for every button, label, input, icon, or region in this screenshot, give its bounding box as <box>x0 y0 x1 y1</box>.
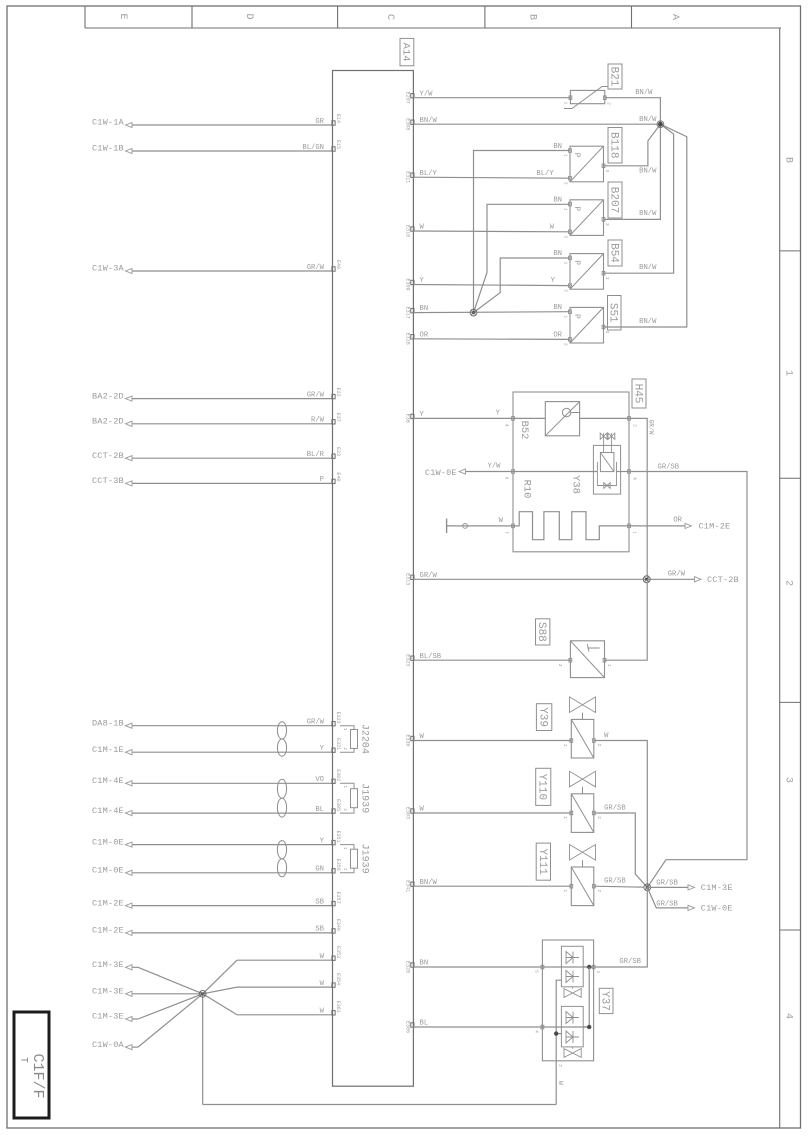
wire BN bus1 to B118 <box>474 151 571 313</box>
svg-text:GR/W: GR/W <box>307 391 325 399</box>
svg-text:E14: E14 <box>335 114 341 123</box>
svg-text:E340: E340 <box>335 919 341 931</box>
svg-text:3: 3 <box>604 277 610 280</box>
wire BN/W B54 to junction <box>604 124 674 273</box>
svg-text:Y111: Y111 <box>536 848 548 875</box>
svg-text:E356: E356 <box>335 859 341 871</box>
svg-text:E40: E40 <box>335 472 341 481</box>
svg-text:E317: E317 <box>405 307 411 319</box>
svg-text:R10: R10 <box>520 480 532 499</box>
pin E23 <box>332 454 335 458</box>
svg-text:R/W: R/W <box>311 417 325 425</box>
svg-text:3: 3 <box>604 223 610 226</box>
svg-text:GR/W: GR/W <box>307 264 325 272</box>
svg-text:B52: B52 <box>518 421 530 440</box>
svg-text:W: W <box>420 224 425 232</box>
svg-text:BL/Y: BL/Y <box>420 170 438 178</box>
svg-text:2: 2 <box>557 1064 563 1067</box>
wire OR to C1M-2E <box>629 525 685 527</box>
wire BL/Y ECU to B118 <box>413 177 570 178</box>
svg-text:CCT-2B: CCT-2B <box>92 451 124 461</box>
pin E357 <box>332 901 335 905</box>
wire C1W-0A diag <box>138 994 203 1047</box>
svg-text:1: 1 <box>563 262 569 265</box>
svg-text:BN: BN <box>553 250 562 258</box>
svg-text:SB: SB <box>315 898 324 906</box>
svg-text:W: W <box>320 980 325 988</box>
svg-text:E308: E308 <box>405 118 411 130</box>
svg-text:GR/SB: GR/SB <box>656 879 678 887</box>
svg-text:C1M-1E: C1M-1E <box>92 745 124 755</box>
svg-text:2: 2 <box>605 102 611 105</box>
svg-text:4: 4 <box>504 424 510 427</box>
svg-text:GR/SB: GR/SB <box>658 463 680 471</box>
svg-text:1: 1 <box>563 208 569 211</box>
svg-text:E306: E306 <box>405 1021 411 1033</box>
svg-text:C1M-4E: C1M-4E <box>92 806 124 816</box>
svg-text:GR/W: GR/W <box>648 420 655 435</box>
wire OR ECU to S51 <box>413 338 570 341</box>
svg-text:E302: E302 <box>335 769 341 781</box>
wire C1M-3E mid <box>132 993 203 995</box>
svg-text:Y: Y <box>320 837 325 845</box>
svg-text:C: C <box>384 14 395 20</box>
svg-text:2: 2 <box>596 889 602 892</box>
ECU pin E323 wire BL/SB <box>411 656 414 660</box>
svg-text:E357: E357 <box>335 892 341 904</box>
svg-text:J1939: J1939 <box>358 783 369 813</box>
ECU pin E309 wire Y <box>411 280 414 284</box>
svg-text:Y: Y <box>496 410 501 418</box>
svg-text:2: 2 <box>563 182 569 185</box>
svg-text:W: W <box>499 517 504 525</box>
svg-text:E322: E322 <box>335 712 341 724</box>
svg-text:BN/W: BN/W <box>635 89 653 97</box>
svg-text:Y38: Y38 <box>569 475 581 494</box>
svg-text:E353: E353 <box>335 946 341 958</box>
wire Y/W to B21 <box>413 97 570 99</box>
svg-text:E23: E23 <box>335 447 341 456</box>
svg-text:E309: E309 <box>405 278 411 290</box>
svg-text:Y: Y <box>320 745 325 753</box>
svg-text:C1M-3E: C1M-3E <box>92 1012 124 1022</box>
assembly Y37 outer box <box>542 940 593 1061</box>
svg-text:E311: E311 <box>405 171 411 183</box>
svg-text:W: W <box>550 224 555 232</box>
Y37 internal wiring <box>556 980 561 1104</box>
svg-text:1: 1 <box>782 370 793 376</box>
svg-text:E330: E330 <box>405 734 411 746</box>
svg-text:E328: E328 <box>405 961 411 973</box>
svg-text:P: P <box>572 206 581 211</box>
resistor J1939 b <box>340 845 354 873</box>
pin E22 <box>332 394 335 398</box>
svg-text:BA2-2D: BA2-2D <box>92 391 124 401</box>
svg-text:BL/SB: BL/SB <box>420 653 442 661</box>
solenoid valve Y39 <box>570 697 596 713</box>
ECU pin E36 wire Y <box>411 414 414 418</box>
svg-text:C1M-2E: C1M-2E <box>92 898 124 908</box>
label A14 <box>400 38 414 65</box>
svg-text:Y110: Y110 <box>536 774 548 800</box>
svg-text:E: E <box>117 13 128 19</box>
svg-text:E305: E305 <box>335 799 341 811</box>
svg-text:B207: B207 <box>607 187 619 213</box>
svg-text:4: 4 <box>632 477 638 480</box>
svg-text:GR/W: GR/W <box>668 571 686 579</box>
ECU block A14 <box>333 71 414 1087</box>
svg-text:3: 3 <box>782 777 793 783</box>
wire GR/W ECU to CCT-2B <box>413 578 694 580</box>
wire BN/W B207 to junction <box>604 124 661 219</box>
label B21 <box>608 64 622 89</box>
svg-text:OR: OR <box>420 331 429 339</box>
svg-text:E321: E321 <box>335 738 341 750</box>
ECU pin E310 wire W <box>411 227 414 231</box>
wire GR/SB to C1W-0E <box>647 887 688 908</box>
svg-text:A: A <box>669 14 680 20</box>
pin E351 <box>332 840 335 844</box>
svg-text:BN: BN <box>420 960 429 968</box>
pin E15 <box>332 147 335 151</box>
internal line B52 to right pin 2 <box>513 417 545 419</box>
wire GR/W down from B52 pin2 <box>629 418 647 579</box>
svg-text:1: 1 <box>595 970 601 973</box>
wire BN bus2 to B207 <box>474 204 571 312</box>
svg-text:P: P <box>572 314 581 319</box>
svg-text:2: 2 <box>563 235 569 238</box>
svg-text:P: P <box>572 260 581 265</box>
svg-text:A14: A14 <box>400 43 412 62</box>
R10 resistance wire meander <box>513 512 629 540</box>
svg-text:E354: E354 <box>335 973 341 985</box>
svg-text:W: W <box>420 806 425 814</box>
wire return from Y37 bottom <box>202 994 204 1105</box>
ECU pin E330 wire W <box>411 736 414 740</box>
svg-text:BA2-2D: BA2-2D <box>92 417 124 427</box>
svg-text:C1M-0E: C1M-0E <box>92 837 124 847</box>
ECU pin E328 wire BN <box>411 963 414 967</box>
wire BN/W S51 to junction <box>604 124 687 327</box>
wire BN/W ECU to Y111 <box>413 885 571 887</box>
Y37 upper device <box>561 946 583 987</box>
svg-text:BL/GN: BL/GN <box>302 144 324 152</box>
svg-text:1: 1 <box>562 744 568 747</box>
wire GR/SB Y111 to junction <box>594 886 644 887</box>
ECU pin E317 wire BN <box>411 308 414 312</box>
svg-text:2: 2 <box>632 424 638 427</box>
svg-text:1: 1 <box>563 101 569 104</box>
Y37 pins <box>541 965 544 969</box>
svg-text:E49: E49 <box>335 260 341 269</box>
svg-text:3: 3 <box>604 331 610 334</box>
svg-text:VO: VO <box>315 776 324 784</box>
wire BN ECU to Y37 <box>413 966 542 968</box>
wire W with inline splice <box>446 519 448 534</box>
svg-text:S51: S51 <box>607 303 619 323</box>
wire S88 to GR/W junction <box>605 579 648 660</box>
svg-text:C1W-3A: C1W-3A <box>92 264 125 274</box>
solenoid valve Y110 <box>570 771 596 787</box>
pressure sensor B118 <box>570 146 604 182</box>
svg-text:5: 5 <box>534 970 540 973</box>
label S88 <box>536 619 550 645</box>
svg-text:2: 2 <box>563 289 569 292</box>
svg-text:GR/SB: GR/SB <box>656 900 678 908</box>
junction GR/SB star <box>644 884 651 891</box>
wire GR/SB bus down to Y37 <box>594 887 648 967</box>
wire GR/SB from B52 pin4 to right bus <box>629 472 747 860</box>
svg-text:C1W-1B: C1W-1B <box>92 144 124 154</box>
svg-text:GR/W: GR/W <box>307 719 325 727</box>
svg-text:B21: B21 <box>607 67 619 87</box>
svg-text:GR/SB: GR/SB <box>604 805 626 813</box>
wire right bus down to junction <box>647 860 747 888</box>
svg-text:E207: E207 <box>405 92 411 104</box>
title box C1F/F <box>14 1012 49 1118</box>
ECU pin E303 wire W <box>411 809 414 813</box>
svg-text:BN/W: BN/W <box>639 168 657 176</box>
svg-text:J1939: J1939 <box>358 844 369 874</box>
twisted pair J1939 b <box>277 841 286 859</box>
svg-text:Y: Y <box>551 277 556 285</box>
pin E302 <box>332 779 335 783</box>
svg-text:E15: E15 <box>335 140 341 149</box>
svg-text:E37: E37 <box>335 413 341 422</box>
svg-text:S88: S88 <box>535 622 547 642</box>
svg-text:C1W-1A: C1W-1A <box>92 118 125 128</box>
wire Y ECU to B52 <box>413 417 513 419</box>
svg-text:BN/W: BN/W <box>639 318 657 326</box>
solenoid valve Y111 <box>570 845 596 861</box>
svg-text:E310: E310 <box>405 225 411 237</box>
svg-text:C1F/F: C1F/F <box>29 1053 46 1098</box>
svg-text:BL/R: BL/R <box>307 451 325 459</box>
wire W ECU to Y39 <box>413 740 571 742</box>
svg-text:1: 1 <box>562 889 568 892</box>
wire W to pin E354 <box>203 987 237 994</box>
svg-text:E351: E351 <box>335 831 341 843</box>
svg-text:B118: B118 <box>607 132 619 158</box>
svg-text:GN: GN <box>315 866 324 874</box>
B52 right pins <box>628 417 631 421</box>
title block header row <box>85 27 781 29</box>
svg-text:Y39: Y39 <box>537 707 549 727</box>
svg-text:E313: E313 <box>405 573 411 585</box>
wire Y ECU to B54 <box>413 285 570 286</box>
internal line Y/W row <box>513 471 597 473</box>
pressure sensor B54 <box>570 254 604 290</box>
ECU pin E318 wire OR <box>411 335 414 339</box>
B52 sensor sub-box <box>545 402 579 436</box>
svg-text:1: 1 <box>606 664 612 667</box>
junction BN/W node <box>658 122 663 127</box>
junction BN star <box>470 309 477 316</box>
svg-text:C1W-0E: C1W-0E <box>701 904 733 914</box>
svg-text:DA8-1B: DA8-1B <box>92 718 124 728</box>
svg-text:2: 2 <box>563 343 569 346</box>
label Y37 <box>599 988 613 1013</box>
svg-text:BN/W: BN/W <box>420 879 438 887</box>
svg-text:GR/SB: GR/SB <box>604 878 626 886</box>
svg-text:E341: E341 <box>405 880 411 892</box>
svg-text:BN: BN <box>553 197 562 205</box>
ECU pin E207 wire Y/W <box>411 94 414 98</box>
svg-text:BN/W: BN/W <box>639 210 657 218</box>
wire W Y39 to bus <box>594 741 648 888</box>
junction star left <box>199 990 206 997</box>
pressure switch S51 <box>570 307 604 343</box>
svg-text:Y/W: Y/W <box>488 463 502 471</box>
svg-text:3: 3 <box>557 664 563 667</box>
svg-text:C1M-2E: C1M-2E <box>699 521 731 531</box>
pin E322 <box>332 722 335 726</box>
twisted pair J2204 <box>277 722 286 739</box>
svg-text:1: 1 <box>563 315 569 318</box>
wire W to pin E353 <box>203 960 237 994</box>
wire W to pin E361 <box>203 994 237 1015</box>
resistor J1939 a <box>340 783 354 813</box>
svg-text:C1M-3E: C1M-3E <box>701 883 733 893</box>
svg-text:CCT-2B: CCT-2B <box>707 575 739 585</box>
svg-text:2: 2 <box>596 744 602 747</box>
svg-text:1: 1 <box>563 154 569 157</box>
svg-text:7: 7 <box>504 531 510 534</box>
svg-text:P: P <box>572 153 581 158</box>
wire BN ECU to S51 with junction <box>413 311 570 314</box>
svg-text:C1M-4E: C1M-4E <box>92 776 124 786</box>
wire W ECU to Y110 <box>413 812 571 814</box>
pin E321 <box>332 748 335 752</box>
ECU pin E308 wire BN/W <box>411 120 414 124</box>
svg-text:B54: B54 <box>607 243 619 263</box>
svg-text:GR: GR <box>315 118 324 126</box>
wire W ECU to B207 <box>413 230 570 233</box>
svg-text:C1W-0A: C1W-0A <box>92 1040 125 1050</box>
svg-text:6: 6 <box>504 477 510 480</box>
svg-text:W: W <box>420 733 425 741</box>
svg-text:D: D <box>243 13 254 19</box>
label H45 <box>632 379 646 408</box>
twisted pair J1939 a <box>277 779 286 798</box>
svg-text:BN/W: BN/W <box>639 116 657 124</box>
ECU pin E306 wire BL <box>411 1023 414 1027</box>
svg-text:W: W <box>320 1008 325 1016</box>
svg-text:C1M-3E: C1M-3E <box>92 960 124 970</box>
svg-text:C1M-2E: C1M-2E <box>92 926 124 936</box>
svg-text:4: 4 <box>534 1030 540 1033</box>
pin E37 <box>332 420 335 424</box>
svg-text:OR: OR <box>673 517 682 525</box>
svg-text:CCT-3B: CCT-3B <box>92 476 124 486</box>
svg-text:BN/W: BN/W <box>639 264 657 272</box>
svg-text:C1M-0E: C1M-0E <box>92 866 124 876</box>
wire GR/SB to C1M-3E <box>647 886 688 888</box>
svg-text:T: T <box>17 1057 28 1063</box>
svg-text:Y37: Y37 <box>599 991 611 1011</box>
assembly box B52/R10/Y38 <box>513 392 629 552</box>
svg-text:W: W <box>320 953 325 961</box>
svg-text:SB: SB <box>315 926 324 934</box>
svg-text:2: 2 <box>782 580 793 586</box>
svg-text:BL: BL <box>315 806 324 814</box>
wire BN/W B118 to junction <box>604 124 661 166</box>
svg-text:H45: H45 <box>631 384 643 404</box>
wire GR/SB Y110 to junction <box>594 813 648 887</box>
svg-text:C1M-3E: C1M-3E <box>92 987 124 997</box>
Y37 lower device <box>561 1006 583 1047</box>
wire BL ECU to Y37 <box>413 1026 542 1028</box>
pin E49 <box>332 267 335 271</box>
pin E340 <box>332 929 335 933</box>
svg-text:E318: E318 <box>405 333 411 345</box>
svg-text:W: W <box>604 732 609 740</box>
svg-text:4: 4 <box>782 1013 793 1019</box>
svg-text:1: 1 <box>562 816 568 819</box>
svg-text:J2204: J2204 <box>358 724 369 754</box>
wire BN/W from ECU to junction <box>413 123 660 125</box>
wire C1M-3E diag <box>138 967 203 994</box>
svg-text:C1W-0E: C1W-0E <box>425 468 457 478</box>
pin E356 <box>332 869 335 873</box>
connector junction on GR/W <box>643 576 650 583</box>
ECU pin E341 wire BN/W <box>411 882 414 886</box>
svg-text:3: 3 <box>604 169 610 172</box>
svg-text:2: 2 <box>596 816 602 819</box>
svg-text:OR: OR <box>553 332 562 340</box>
pin E14 <box>332 121 335 125</box>
svg-text:E303: E303 <box>405 807 411 819</box>
wire C1M-3E diag2 <box>138 994 203 1019</box>
pressure sensor B207 <box>570 200 604 236</box>
ECU pin E311 wire BL/Y <box>411 173 414 177</box>
svg-text:B: B <box>782 157 793 163</box>
right row-label column <box>779 28 781 1128</box>
svg-text:E36: E36 <box>405 414 411 423</box>
svg-text:Y: Y <box>420 277 425 285</box>
svg-text:B: B <box>526 14 537 20</box>
svg-text:E323: E323 <box>405 654 411 666</box>
pin E40 <box>332 479 335 483</box>
svg-text:GR/SB: GR/SB <box>619 958 641 966</box>
ECU pin E313 wire GR/W <box>411 575 414 579</box>
valve symbol Y38 <box>600 433 607 439</box>
wire BN bus3 to B54 <box>474 258 571 313</box>
resistor/thermistor B21 <box>570 90 604 103</box>
pin E305 <box>332 809 335 813</box>
svg-text:E22: E22 <box>335 388 341 397</box>
svg-text:1: 1 <box>632 531 638 534</box>
svg-text:E361: E361 <box>335 1001 341 1013</box>
svg-text:BN: BN <box>553 143 562 151</box>
pressure switch S88 <box>570 641 604 678</box>
svg-text:BN: BN <box>553 304 562 312</box>
svg-text:BL/Y: BL/Y <box>536 170 554 178</box>
wire BL/SB ECU to S88 <box>413 659 570 661</box>
resistor J2204 <box>340 726 354 753</box>
svg-text:W: W <box>557 1081 564 1085</box>
svg-text:P: P <box>320 476 324 484</box>
